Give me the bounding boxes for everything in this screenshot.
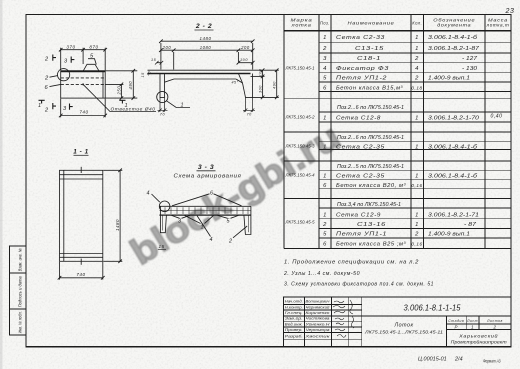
svg-text:Петля УП1-1: Петля УП1-1 xyxy=(336,232,387,238)
left margin stamp boxes xyxy=(10,246,27,335)
svg-text:4: 4 xyxy=(323,66,327,72)
svg-text:1.400-9 вып.1: 1.400-9 вып.1 xyxy=(428,232,470,238)
svg-text:1080: 1080 xyxy=(200,45,212,50)
svg-text:Сетка С12-9: Сетка С12-9 xyxy=(336,212,381,218)
svg-text:1: 1 xyxy=(181,102,185,108)
svg-text:1: 1 xyxy=(415,116,419,122)
svg-text:6: 6 xyxy=(323,86,327,92)
svg-text:Р: Р xyxy=(455,324,458,329)
specification table verticals xyxy=(283,15,285,249)
svg-text:3: 3 xyxy=(64,59,68,65)
section mark 2 top xyxy=(53,55,56,61)
svg-text:Гл.спец.: Гл.спец. xyxy=(285,311,303,315)
leader label 5 xyxy=(88,59,96,65)
svg-text:Подпись и дата: Подпись и дата xyxy=(18,276,23,308)
svg-text:Разраб.: Разраб. xyxy=(285,335,303,339)
svg-text:3 - 3: 3 - 3 xyxy=(198,164,214,171)
svg-text:Лоток: Лоток xyxy=(394,323,414,329)
svg-text:Промстройниипроект: Промстройниипроект xyxy=(451,340,508,345)
svg-text:100: 100 xyxy=(258,68,262,76)
svg-text:2: 2 xyxy=(414,56,419,62)
svg-text:1: 1 xyxy=(415,174,419,180)
svg-text:490: 490 xyxy=(128,81,133,90)
svg-text:1: 1 xyxy=(38,103,42,109)
leader label 6 xyxy=(50,84,61,86)
svg-text:лотка: лотка xyxy=(290,23,311,28)
svg-text:ЛК75.150.45-4: ЛК75.150.45-4 xyxy=(285,173,316,178)
svg-text:0,16: 0,16 xyxy=(411,242,422,247)
top dim line 370/870 xyxy=(61,49,105,51)
svg-text:0,18: 0,18 xyxy=(411,86,422,91)
right dims extensions xyxy=(251,69,279,71)
svg-text:0,40: 0,40 xyxy=(491,114,503,120)
svg-text:300: 300 xyxy=(258,85,262,93)
svg-text:3.006.1-8.2-1-87: 3.006.1-8.2-1-87 xyxy=(428,46,480,52)
section mark 3 top xyxy=(71,57,74,63)
svg-text:Поз.2...5 по ЛК75.150.45-1: Поз.2...5 по ЛК75.150.45-1 xyxy=(337,164,404,170)
leader 4 bottom xyxy=(197,216,211,237)
svg-text:Вед.инж.: Вед.инж. xyxy=(285,322,303,326)
svg-text:Формат А3: Формат А3 xyxy=(483,359,501,365)
svg-text:2: 2 xyxy=(414,76,419,82)
svg-text:370: 370 xyxy=(66,45,75,50)
svg-text:Кириченко: Кириченко xyxy=(306,311,330,315)
slab mesh ticks xyxy=(165,207,248,214)
svg-text:1: 1 xyxy=(323,212,327,218)
svg-text:- 127: - 127 xyxy=(462,56,478,62)
dim 200 1080 200 xyxy=(161,49,253,51)
dim 15 left xyxy=(155,61,163,65)
svg-text:Стадия: Стадия xyxy=(448,319,464,323)
svg-text:23: 23 xyxy=(505,8,515,15)
svg-text:1: 1 xyxy=(415,35,419,41)
svg-text:1: 1 xyxy=(415,222,419,228)
section mark 2 bottom xyxy=(53,103,56,109)
svg-text:Схема армирования: Схема армирования xyxy=(174,174,242,180)
svg-text:3: 3 xyxy=(323,56,327,62)
svg-text:1: 1 xyxy=(201,224,205,230)
svg-text:Ц.00015-01: Ц.00015-01 xyxy=(418,357,447,363)
table row lines xyxy=(319,42,511,44)
svg-text:3.006.1-8.2-1-71: 3.006.1-8.2-1-71 xyxy=(428,212,479,218)
svg-text:Зав.гр.: Зав.гр. xyxy=(285,317,303,321)
svg-text:1: 1 xyxy=(415,145,419,151)
svg-text:Фиксатор Ф3: Фиксатор Ф3 xyxy=(336,66,389,72)
scan left edge streak xyxy=(0,0,3,369)
svg-text:1 - 1: 1 - 1 xyxy=(73,148,89,155)
svg-text:3. Схему установки фиксаторо: 3. Схему установки фиксаторов поз.4 см. … xyxy=(284,281,434,287)
bottom dim 740 xyxy=(59,262,61,280)
svg-text:5: 5 xyxy=(323,76,327,82)
svg-text:1480: 1480 xyxy=(200,36,212,41)
detail circle on corner xyxy=(58,69,70,81)
table header bottom line xyxy=(284,30,511,32)
section 2-2 left wall xyxy=(160,74,165,98)
svg-text:2: 2 xyxy=(322,46,327,52)
left wall chamfer xyxy=(165,79,175,82)
svg-text:1.400-9 вып.1: 1.400-9 вып.1 xyxy=(428,76,470,82)
svg-text:Харьковский: Харьковский xyxy=(458,333,498,339)
svg-text:Сетка С2-33: Сетка С2-33 xyxy=(336,35,385,41)
table bottom line xyxy=(284,247,511,249)
right wall chamfer 45 xyxy=(236,79,243,83)
stadia list cells xyxy=(447,323,512,325)
svg-text:1: 1 xyxy=(415,46,419,52)
signature rows xyxy=(284,303,362,305)
right dim 250 xyxy=(105,83,123,85)
svg-text:- 87: - 87 xyxy=(464,222,477,228)
plan view right double edge xyxy=(102,71,104,98)
svg-text:100: 100 xyxy=(240,58,248,62)
detail circle 1 xyxy=(157,91,168,102)
leaders 3 xyxy=(172,215,191,218)
svg-text:45°: 45° xyxy=(232,81,239,85)
right dim 490 xyxy=(105,70,137,72)
svg-text:Вотинцевич: Вотинцевич xyxy=(306,300,330,304)
svg-text:Бетон класса В25 ;м³: Бетон класса В25 ;м³ xyxy=(336,242,407,248)
svg-text:Хвостик: Хвостик xyxy=(304,335,330,339)
svg-text:3.006.1-8.2-1-70: 3.006.1-8.2-1-70 xyxy=(428,116,479,122)
svg-text:Инв. № подл.: Инв. № подл. xyxy=(18,311,23,333)
svg-text:3.006.1-8.4-1-б: 3.006.1-8.4-1-б xyxy=(428,145,478,151)
svg-text:200: 200 xyxy=(240,45,250,50)
svg-text:15: 15 xyxy=(151,58,157,62)
mesh mid line xyxy=(159,210,251,212)
dim 1480 xyxy=(161,40,253,42)
svg-text:Сетка С12-8: Сетка С12-8 xyxy=(336,116,381,122)
plan view hidden dashed lines xyxy=(61,77,105,79)
dim 100 right leg top xyxy=(238,62,252,64)
section mark 3 bottom xyxy=(70,104,73,110)
svg-text:Угненко.Н: Угненко.Н xyxy=(306,322,330,326)
svg-text:Сетка С2-35: Сетка С2-35 xyxy=(336,174,385,180)
svg-text:Поз.2...6 по ЛК75.150.45-1: Поз.2...6 по ЛК75.150.45-1 xyxy=(337,105,404,111)
svg-text:3.006.1-8.1-1-15: 3.006.1-8.1-1-15 xyxy=(404,304,461,313)
svg-text:ЛК75.150.45-2: ЛК75.150.45-2 xyxy=(285,115,316,120)
svg-text:Бетон класса В20, м³: Бетон класса В20, м³ xyxy=(336,183,407,189)
svg-text:Провер.: Провер. xyxy=(285,328,303,332)
svg-text:ЛК75.150.45-5: ЛК75.150.45-5 xyxy=(285,220,316,225)
signature area verticals xyxy=(303,297,305,347)
svg-text:3: 3 xyxy=(63,106,67,112)
svg-text:1: 1 xyxy=(415,212,419,218)
right dim 1480 xyxy=(103,169,122,171)
svg-text:Чистякова: Чистякова xyxy=(306,317,330,321)
svg-text:Черногора: Черногора xyxy=(306,328,330,332)
svg-text:Чернявский: Чернявский xyxy=(306,305,330,309)
hole center dot xyxy=(82,83,84,85)
left leg xyxy=(160,206,166,232)
svg-text:Н.контр.: Н.контр. xyxy=(285,305,303,309)
svg-text:ЛК75.150.45-1...ЛК75.150.45-11: ЛК75.150.45-1...ЛК75.150.45-11 xyxy=(364,330,444,335)
section 3-3 slab xyxy=(159,205,251,207)
svg-text:5: 5 xyxy=(323,232,327,238)
svg-text:3.006.1-8.4-1-б: 3.006.1-8.4-1-б xyxy=(428,35,478,41)
svg-text:Поз.: Поз. xyxy=(320,21,330,26)
svg-text:6: 6 xyxy=(210,191,214,197)
section mark 1 right bottom xyxy=(119,100,125,103)
svg-text:2. Узлы 1...4 см. докум-50: 2. Узлы 1...4 см. докум-50 xyxy=(283,271,360,277)
svg-text:870: 870 xyxy=(89,45,98,50)
svg-text:5: 5 xyxy=(90,54,94,60)
bottom dim 740 xyxy=(60,99,62,118)
svg-text:Лист: Лист xyxy=(466,319,478,323)
svg-text:2: 2 xyxy=(228,238,233,244)
svg-text:Кол.: Кол. xyxy=(412,21,422,26)
svg-text:2: 2 xyxy=(44,108,49,114)
leaders 1 xyxy=(185,215,214,223)
title block outer xyxy=(284,297,512,347)
svg-text:4: 4 xyxy=(147,191,151,197)
svg-text:Петля УП1-2: Петля УП1-2 xyxy=(336,76,387,82)
svg-text:200: 200 xyxy=(162,45,172,50)
section 2-2 inner floor line xyxy=(174,78,236,80)
svg-text:0,16: 0,16 xyxy=(411,183,422,188)
svg-text:1: 1 xyxy=(323,116,327,122)
svg-text:документа: документа xyxy=(437,23,471,28)
leader label 1 xyxy=(167,101,191,108)
section 2-2 right wall xyxy=(238,74,252,98)
svg-text:4: 4 xyxy=(415,66,419,72)
section 1-1 inner wall lines xyxy=(63,170,65,261)
svg-text:1: 1 xyxy=(323,174,327,180)
svg-text:70: 70 xyxy=(247,112,253,116)
leaders 6 xyxy=(172,194,242,206)
svg-text:1: 1 xyxy=(471,324,474,329)
svg-text:Сетка С2-35: Сетка С2-35 xyxy=(336,145,385,151)
svg-text:5: 5 xyxy=(227,218,231,224)
svg-text:2: 2 xyxy=(322,222,327,228)
svg-text:лотка,т: лотка,т xyxy=(485,23,509,28)
section mark 1 left bottom xyxy=(39,100,45,103)
svg-text:Наименование: Наименование xyxy=(348,21,395,27)
leaders 5 xyxy=(218,215,239,218)
svg-text:490: 490 xyxy=(273,81,277,89)
svg-text:ЛК75.150.45-3: ЛК75.150.45-3 xyxy=(285,144,316,149)
svg-text:С18-1: С18-1 xyxy=(357,56,381,62)
svg-text:- 130: - 130 xyxy=(462,66,477,72)
svg-text:2 - 2: 2 - 2 xyxy=(195,23,212,30)
svg-text:4: 4 xyxy=(210,237,214,243)
left foot extensions + dim 70 xyxy=(158,97,168,112)
plan view body rect xyxy=(61,71,105,98)
detail circle 4 xyxy=(159,201,170,212)
svg-text:6: 6 xyxy=(45,85,49,91)
watermark block-gbi.ru xyxy=(123,116,347,273)
svg-text:2: 2 xyxy=(44,76,49,82)
section 1-1 outer rect xyxy=(60,170,103,261)
plan view thick top edge xyxy=(61,70,105,72)
svg-text:15: 15 xyxy=(141,72,145,78)
leader 4 xyxy=(152,194,160,202)
leader 2 xyxy=(233,226,247,238)
svg-text:250: 250 xyxy=(116,86,121,96)
svg-text:1480: 1480 xyxy=(115,219,120,231)
svg-text:3.006.1-8.4-1-б: 3.006.1-8.4-1-б xyxy=(428,174,478,180)
svg-text:Отверстие Ø40: Отверстие Ø40 xyxy=(111,107,156,112)
svg-text:ЛК75.150.45-1: ЛК75.150.45-1 xyxy=(285,66,316,71)
svg-text:С13-15: С13-15 xyxy=(355,46,384,52)
signature squiggles xyxy=(333,301,346,337)
svg-text:2: 2 xyxy=(414,232,419,238)
lotok cell divider xyxy=(446,316,448,347)
svg-text:740: 740 xyxy=(79,109,88,114)
svg-text:С13-16: С13-16 xyxy=(357,222,386,228)
fixator trapezoid on top xyxy=(83,64,99,71)
svg-text:1: 1 xyxy=(323,35,327,41)
svg-text:6: 6 xyxy=(323,183,327,189)
svg-text:70: 70 xyxy=(160,112,166,116)
svg-text:Листов: Листов xyxy=(486,319,503,323)
leader label 2 xyxy=(50,76,58,78)
svg-text:6: 6 xyxy=(323,242,327,248)
svg-text:740: 740 xyxy=(76,272,85,277)
doc number cell bottom xyxy=(362,315,511,317)
center tick marks xyxy=(80,167,82,173)
right dim line 100/300 xyxy=(262,70,264,97)
svg-text:1: 1 xyxy=(323,145,327,151)
marka column group separators xyxy=(284,98,319,100)
right dim line 490 xyxy=(276,70,278,97)
svg-text:Нач.отд.: Нач.отд. xyxy=(285,300,303,304)
svg-text:2/4: 2/4 xyxy=(454,357,463,363)
svg-text:3: 3 xyxy=(178,218,182,224)
svg-text:1. Продолжение спецификации: 1. Продолжение спецификации см. на л.2 xyxy=(284,260,419,266)
svg-text:Бетон класса В15,м³: Бетон класса В15,м³ xyxy=(336,86,403,92)
right foot extensions + dim 70 xyxy=(243,97,255,112)
svg-text:2: 2 xyxy=(493,324,497,329)
svg-text:Взам. инв. №: Взам. инв. № xyxy=(18,248,23,271)
svg-text:Поз.3,4 по ЛК75.150.45-1: Поз.3,4 по ЛК75.150.45-1 xyxy=(337,202,401,208)
leader to hole text xyxy=(83,84,156,111)
svg-text:15: 15 xyxy=(159,244,165,249)
right leg xyxy=(244,206,251,234)
svg-text:Поз.2...6 по ЛК75.150.45-1: Поз.2...6 по ЛК75.150.45-1 xyxy=(337,135,404,141)
section 2-2 slab xyxy=(148,69,251,71)
svg-text:2: 2 xyxy=(44,57,49,63)
